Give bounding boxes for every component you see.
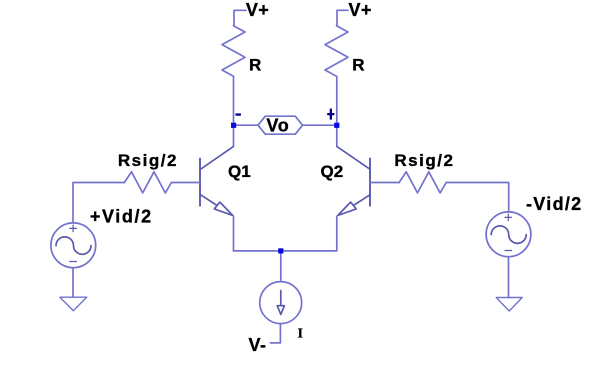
resistor Rsig/2 (right) xyxy=(399,172,446,193)
wire V+ right stub xyxy=(337,10,348,25)
svg-text:V-: V- xyxy=(249,335,267,355)
svg-text:Rsig/2: Rsig/2 xyxy=(118,151,178,170)
wire left node down xyxy=(233,125,235,146)
resistor R1 (left R) xyxy=(222,26,245,77)
wire V2 to ground xyxy=(508,257,510,298)
wire base to source V2 xyxy=(446,183,509,213)
resistor Rsig/2 (left) xyxy=(124,172,171,193)
wire Q1 base xyxy=(171,182,200,184)
node B (right collector) xyxy=(334,123,339,128)
node C (emitter junction) xyxy=(278,248,283,253)
ground (left) xyxy=(60,297,87,311)
svg-text:Q1: Q1 xyxy=(228,162,251,181)
voltage source V1 +Vid/2 xyxy=(51,223,96,268)
svg-text:Vo: Vo xyxy=(266,116,289,136)
voltage source V2 -Vid/2 xyxy=(486,212,531,257)
wire right node down xyxy=(336,125,338,146)
svg-text:R: R xyxy=(352,55,364,74)
wire Q1 emitter down xyxy=(233,216,235,251)
svg-text:V+: V+ xyxy=(349,0,372,20)
wire right collector feed xyxy=(336,76,338,125)
wire Q2 emitter down xyxy=(336,216,338,251)
svg-text:+Vid/2: +Vid/2 xyxy=(90,207,153,227)
svg-text:Q2: Q2 xyxy=(321,162,344,181)
svg-text:-Vid/2: -Vid/2 xyxy=(526,194,582,214)
transistor Q2 xyxy=(337,146,370,215)
svg-text:R: R xyxy=(249,56,261,75)
wire left collector feed xyxy=(233,76,235,125)
svg-text:I: I xyxy=(298,325,303,340)
wire I to V- xyxy=(271,324,281,343)
wire base to source V1 xyxy=(73,183,124,223)
polarity mark + (right of Vo) xyxy=(327,109,334,120)
probe bubble Vo xyxy=(258,116,303,134)
current source I xyxy=(260,282,302,324)
wire tail node down xyxy=(280,251,282,282)
wire Vo probe to right node xyxy=(303,124,338,126)
wire emitters bus xyxy=(234,250,337,252)
transistor Q1 xyxy=(200,146,234,215)
node A (left collector) xyxy=(231,123,236,128)
ground (right) xyxy=(496,298,522,312)
wire Q2 base xyxy=(370,182,399,184)
svg-text:Rsig/2: Rsig/2 xyxy=(394,151,454,170)
svg-text:V+: V+ xyxy=(246,0,269,20)
polarity mark - (left of Vo) xyxy=(236,113,241,115)
wire V1 to ground xyxy=(72,268,74,298)
wire node to Vo probe left xyxy=(234,124,259,126)
wire V+ left stub xyxy=(234,10,246,25)
resistor R2 (right R) xyxy=(325,26,348,77)
